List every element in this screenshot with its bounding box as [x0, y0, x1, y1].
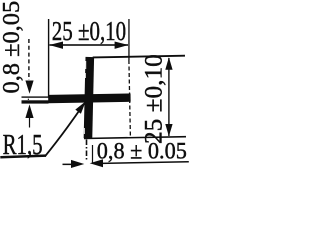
- svg-text:25 ±0,10: 25 ±0,10: [52, 16, 126, 46]
- svg-text:0,8 ± 0.05: 0,8 ± 0.05: [97, 138, 187, 163]
- svg-text:0,8 ±0,05: 0,8 ±0,05: [0, 1, 25, 94]
- svg-text:25 ±0,10: 25 ±0,10: [140, 54, 168, 144]
- svg-text:R1,5: R1,5: [3, 129, 43, 161]
